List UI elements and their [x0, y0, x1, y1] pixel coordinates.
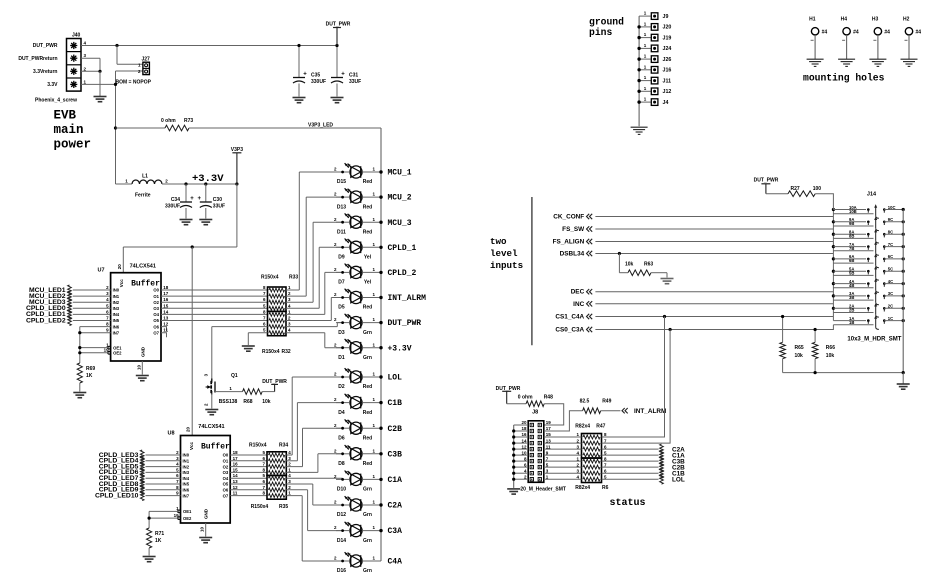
svg-text:O1: O1 [223, 459, 229, 464]
svg-text:11: 11 [233, 491, 238, 496]
svg-text:IN7: IN7 [113, 330, 120, 335]
svg-text:Grn: Grn [363, 330, 372, 336]
svg-text:R47: R47 [596, 424, 605, 430]
svg-text:10C: 10C [888, 205, 896, 210]
svg-text:C4A: C4A [388, 558, 403, 567]
svg-text:5C: 5C [888, 267, 893, 272]
svg-text:1K: 1K [155, 538, 162, 544]
svg-text:J27: J27 [142, 57, 151, 63]
svg-text:Phoenix_4_screw: Phoenix_4_screw [35, 98, 77, 104]
svg-text:MCU_3: MCU_3 [388, 219, 412, 228]
svg-text:H1: H1 [809, 17, 816, 23]
svg-text:OE2: OE2 [183, 516, 192, 521]
svg-text:R33: R33 [289, 275, 298, 281]
svg-text:5B: 5B [849, 271, 854, 276]
svg-text:+: + [190, 196, 194, 202]
svg-text:Grn: Grn [363, 568, 372, 574]
svg-text:Red: Red [363, 179, 372, 185]
svg-text:#4: #4 [822, 30, 828, 36]
svg-text:Yel: Yel [364, 255, 372, 261]
svg-text:LOL: LOL [672, 476, 685, 483]
svg-text:J11: J11 [663, 78, 672, 84]
svg-text:level: level [490, 248, 518, 259]
svg-text:Grn: Grn [363, 355, 372, 361]
svg-text:Buffer: Buffer [201, 443, 230, 452]
svg-text:10B: 10B [849, 209, 857, 214]
svg-text:FS_SW: FS_SW [562, 226, 585, 233]
svg-text:10: 10 [521, 450, 527, 455]
svg-text:DUT_PWR: DUT_PWR [388, 319, 422, 328]
svg-text:7B: 7B [849, 246, 854, 251]
svg-text:Yel: Yel [364, 280, 372, 286]
svg-text:IN3: IN3 [183, 470, 190, 475]
svg-text:10: 10 [200, 526, 205, 532]
svg-text:IN2: IN2 [183, 464, 190, 469]
svg-text:1K: 1K [86, 373, 93, 379]
svg-text:C2A: C2A [388, 502, 403, 511]
svg-text:Red: Red [363, 461, 372, 467]
svg-text:18: 18 [521, 426, 527, 431]
svg-text:R34: R34 [279, 443, 288, 449]
svg-text:C1A: C1A [388, 476, 403, 485]
svg-text:Ferrite: Ferrite [135, 193, 151, 199]
svg-text:BSS138: BSS138 [219, 399, 238, 405]
svg-text:Red: Red [363, 305, 372, 311]
svg-text:Red: Red [363, 204, 372, 210]
svg-text:mounting holes: mounting holes [803, 73, 885, 84]
svg-text:D13: D13 [337, 204, 346, 210]
svg-text:J26: J26 [663, 57, 672, 63]
svg-text:13: 13 [233, 479, 239, 484]
svg-text:D2: D2 [338, 384, 345, 390]
svg-text:pins: pins [589, 27, 612, 38]
svg-text:IN0: IN0 [113, 288, 120, 293]
svg-text:U8: U8 [168, 431, 175, 437]
svg-text:IN6: IN6 [113, 324, 120, 329]
svg-text:6B: 6B [849, 258, 854, 263]
svg-text:J16: J16 [663, 68, 672, 74]
svg-text:O5: O5 [153, 318, 159, 323]
svg-text:FS_ALIGN: FS_ALIGN [553, 239, 585, 246]
svg-text:CPLD_1: CPLD_1 [388, 244, 417, 253]
svg-text:100: 100 [813, 186, 822, 192]
svg-text:3C: 3C [888, 291, 893, 296]
svg-text:8C: 8C [888, 230, 893, 235]
svg-text:J12: J12 [663, 89, 672, 95]
svg-text:D1: D1 [338, 355, 345, 361]
svg-text:DEC: DEC [571, 289, 585, 296]
svg-text:R71: R71 [155, 531, 164, 537]
svg-text:O0: O0 [153, 288, 159, 293]
svg-text:R32: R32 [282, 349, 291, 355]
svg-text:IN6: IN6 [183, 488, 190, 493]
svg-text:MCU_1: MCU_1 [388, 169, 412, 178]
svg-text:3B: 3B [849, 295, 854, 300]
svg-text:11: 11 [163, 328, 168, 333]
svg-text:D4: D4 [338, 410, 345, 416]
svg-text:15: 15 [163, 303, 169, 308]
svg-text:R69: R69 [86, 366, 95, 372]
svg-text:15: 15 [546, 432, 552, 437]
svg-text:0 ohm: 0 ohm [518, 394, 533, 400]
svg-text:Grn: Grn [363, 487, 372, 493]
svg-text:1B: 1B [849, 320, 854, 325]
svg-text:D9: D9 [338, 255, 345, 261]
svg-text:#4: #4 [853, 30, 859, 36]
svg-text:#4: #4 [884, 30, 890, 36]
svg-text:16: 16 [233, 462, 239, 467]
svg-text:D11: D11 [337, 229, 346, 235]
svg-text:O7: O7 [153, 330, 159, 335]
svg-text:GND: GND [204, 508, 209, 519]
svg-text:H4: H4 [841, 17, 848, 23]
svg-text:R66: R66 [826, 345, 835, 351]
svg-text:J8: J8 [532, 410, 538, 416]
svg-text:C1B: C1B [388, 399, 403, 408]
svg-text:O6: O6 [153, 324, 159, 329]
svg-text:+: + [303, 72, 307, 78]
svg-text:10k: 10k [625, 262, 634, 268]
svg-text:Grn: Grn [363, 512, 372, 518]
svg-text:18: 18 [163, 285, 169, 290]
svg-text:Vcc: Vcc [189, 441, 194, 450]
svg-text:J40: J40 [72, 33, 81, 39]
svg-text:IN4: IN4 [113, 312, 120, 317]
svg-text:U7: U7 [98, 268, 105, 274]
svg-text:Red: Red [363, 410, 372, 416]
svg-text:CK_CONF: CK_CONF [553, 214, 584, 221]
svg-text:Red: Red [363, 229, 372, 235]
svg-text:20: 20 [521, 420, 527, 425]
svg-text:17: 17 [546, 426, 552, 431]
svg-text:10k: 10k [262, 399, 271, 405]
svg-text:CPLD_LED10: CPLD_LED10 [95, 492, 139, 499]
svg-text:D8: D8 [338, 461, 345, 467]
svg-text:Grn: Grn [363, 538, 372, 544]
svg-text:16: 16 [163, 297, 169, 302]
svg-text:D7: D7 [338, 280, 345, 286]
svg-text:DUT_PWR: DUT_PWR [262, 379, 287, 385]
svg-text:7C: 7C [888, 242, 893, 247]
svg-text:16: 16 [521, 432, 527, 437]
svg-text:19: 19 [546, 420, 552, 425]
svg-text:D15: D15 [337, 179, 346, 185]
svg-text:status: status [610, 498, 646, 509]
svg-text:DUT_PWR: DUT_PWR [33, 43, 58, 49]
svg-text:D3: D3 [338, 330, 345, 336]
svg-text:74LCX541: 74LCX541 [130, 264, 156, 270]
svg-text:R49: R49 [602, 399, 611, 405]
svg-text:R63: R63 [644, 262, 653, 268]
svg-text:D6: D6 [338, 435, 345, 441]
svg-text:CPLD_2: CPLD_2 [388, 269, 417, 278]
svg-text:two: two [490, 236, 507, 247]
svg-text:IN4: IN4 [183, 476, 190, 481]
svg-text:14: 14 [521, 438, 527, 443]
svg-text:C3A: C3A [388, 527, 403, 536]
svg-text:INT_ALRM: INT_ALRM [388, 294, 427, 303]
svg-text:C2B: C2B [388, 425, 403, 434]
svg-text:10k: 10k [795, 353, 804, 359]
svg-text:INC: INC [573, 301, 584, 308]
svg-text:33UF: 33UF [213, 203, 225, 209]
svg-text:O6: O6 [223, 488, 229, 493]
svg-text:D12: D12 [337, 512, 346, 518]
svg-text:#4: #4 [916, 30, 922, 36]
svg-text:Q1: Q1 [231, 373, 238, 379]
svg-text:O0: O0 [223, 453, 229, 458]
svg-text:Red: Red [363, 384, 372, 390]
svg-text:R82x4: R82x4 [575, 485, 590, 491]
svg-text:4B: 4B [849, 283, 854, 288]
svg-text:OE1: OE1 [183, 509, 192, 514]
svg-text:D14: D14 [337, 538, 346, 544]
svg-text:C31: C31 [349, 73, 358, 79]
svg-text:O2: O2 [223, 464, 229, 469]
svg-text:R150x4: R150x4 [262, 349, 280, 355]
svg-text:J19: J19 [663, 35, 672, 41]
svg-text:O4: O4 [153, 312, 159, 317]
svg-text:O3: O3 [153, 306, 159, 311]
svg-text:DUT_PWRreturn: DUT_PWRreturn [18, 56, 57, 62]
svg-text:10k: 10k [826, 353, 835, 359]
svg-text:LOL: LOL [388, 374, 403, 383]
svg-text:IN5: IN5 [113, 318, 120, 323]
svg-text:power: power [54, 138, 92, 152]
svg-text:12: 12 [233, 485, 239, 490]
svg-text:10: 10 [136, 364, 141, 370]
svg-text:R150x4: R150x4 [261, 275, 279, 281]
svg-text:12: 12 [163, 322, 169, 327]
svg-text:R6: R6 [602, 485, 609, 491]
svg-text:R35: R35 [279, 504, 288, 510]
svg-text:9B: 9B [849, 221, 854, 226]
svg-text:R27: R27 [791, 186, 800, 192]
svg-text:ground: ground [589, 17, 624, 28]
svg-text:O7: O7 [223, 493, 229, 498]
svg-text:13: 13 [163, 316, 169, 321]
svg-text:15: 15 [233, 467, 239, 472]
svg-text:9C: 9C [888, 217, 893, 222]
svg-text:J20: J20 [663, 25, 672, 31]
svg-text:INT_ALRM: INT_ALRM [634, 408, 666, 415]
svg-text:6C: 6C [888, 254, 893, 259]
svg-text:R68: R68 [243, 399, 252, 405]
svg-text:H2: H2 [903, 17, 910, 23]
svg-text:C30: C30 [213, 197, 222, 203]
svg-text:EVB: EVB [54, 109, 77, 123]
svg-text:OE2: OE2 [113, 351, 122, 356]
svg-text:IN3: IN3 [113, 306, 120, 311]
svg-text:2C: 2C [888, 304, 893, 309]
svg-text:2B: 2B [849, 308, 854, 313]
svg-text:330UF: 330UF [165, 203, 180, 209]
svg-text:C3B: C3B [388, 450, 403, 459]
svg-text:12: 12 [521, 444, 527, 449]
svg-text:GND: GND [140, 346, 145, 357]
svg-text:O3: O3 [223, 470, 229, 475]
svg-text:33UF: 33UF [349, 79, 361, 85]
svg-text:74LCX541: 74LCX541 [198, 424, 224, 430]
svg-text:CS1_C4A: CS1_C4A [555, 314, 584, 321]
svg-text:R65: R65 [795, 345, 804, 351]
svg-text:O2: O2 [153, 300, 159, 305]
svg-text:BOM = NOPOP: BOM = NOPOP [116, 79, 152, 85]
svg-text:330UF: 330UF [311, 79, 326, 85]
svg-text:Red: Red [363, 435, 372, 441]
svg-text:17: 17 [233, 456, 239, 461]
svg-text:19: 19 [174, 513, 180, 518]
svg-text:R82x4: R82x4 [575, 424, 590, 430]
svg-text:IN7: IN7 [183, 493, 190, 498]
svg-text:R150x4: R150x4 [251, 504, 269, 510]
svg-text:10x3_M_HDR_SMT: 10x3_M_HDR_SMT [847, 337, 901, 343]
svg-text:H3: H3 [872, 17, 879, 23]
svg-text:L1: L1 [142, 174, 148, 180]
svg-text:V3P3_LED: V3P3_LED [308, 123, 333, 129]
svg-text:main: main [54, 123, 84, 137]
svg-text:IN5: IN5 [183, 482, 190, 487]
svg-text:20_M_Header_SMT: 20_M_Header_SMT [520, 487, 566, 493]
svg-text:17: 17 [163, 291, 169, 296]
svg-text:R150x4: R150x4 [249, 443, 267, 449]
svg-text:20: 20 [117, 264, 122, 270]
svg-text:J4: J4 [663, 100, 669, 106]
svg-text:J14: J14 [867, 192, 877, 198]
svg-text:C34: C34 [171, 197, 180, 203]
svg-text:+: + [341, 72, 345, 78]
svg-text:+3.3V: +3.3V [192, 173, 224, 185]
svg-text:C35: C35 [311, 73, 320, 79]
svg-text:13: 13 [546, 438, 552, 443]
svg-text:IN2: IN2 [113, 300, 120, 305]
svg-text:O5: O5 [223, 482, 229, 487]
svg-text:14: 14 [233, 473, 239, 478]
svg-text:J9: J9 [663, 14, 669, 20]
svg-text:J24: J24 [663, 46, 672, 52]
svg-text:11: 11 [546, 444, 551, 449]
svg-text:IN1: IN1 [113, 294, 120, 299]
svg-text:19: 19 [104, 348, 110, 353]
svg-text:CS0_C3A: CS0_C3A [555, 327, 584, 334]
svg-text:IN0: IN0 [183, 453, 190, 458]
svg-text:inputs: inputs [490, 260, 523, 271]
svg-text:1C: 1C [888, 316, 893, 321]
svg-text:+: + [198, 196, 202, 202]
svg-text:V3P3: V3P3 [231, 147, 243, 153]
svg-text:CPLD_LED2: CPLD_LED2 [26, 317, 66, 324]
svg-text:R73: R73 [184, 118, 193, 124]
svg-text:8B: 8B [849, 234, 854, 239]
svg-text:DUT_PWR: DUT_PWR [326, 22, 351, 28]
svg-text:4C: 4C [888, 279, 893, 284]
svg-text:Vcc: Vcc [119, 279, 124, 288]
svg-text:82.5: 82.5 [580, 399, 590, 405]
svg-text:3.3Vreturn: 3.3Vreturn [33, 69, 57, 75]
svg-text:0 ohm: 0 ohm [161, 118, 176, 124]
svg-text:18: 18 [233, 450, 239, 455]
svg-text:D5: D5 [338, 305, 345, 311]
svg-text:DSBL34: DSBL34 [560, 251, 585, 258]
svg-text:D16: D16 [337, 568, 346, 574]
svg-text:MCU_2: MCU_2 [388, 194, 412, 203]
svg-text:IN1: IN1 [183, 459, 190, 464]
svg-text:O4: O4 [223, 476, 229, 481]
svg-text:DUT_PWR: DUT_PWR [754, 177, 779, 183]
svg-text:R48: R48 [544, 394, 553, 400]
svg-text:20: 20 [186, 426, 191, 432]
svg-text:14: 14 [163, 309, 169, 314]
svg-text:D10: D10 [337, 487, 346, 493]
svg-text:O1: O1 [153, 294, 159, 299]
svg-text:3.3V: 3.3V [47, 82, 58, 88]
svg-text:+3.3V: +3.3V [388, 344, 412, 353]
